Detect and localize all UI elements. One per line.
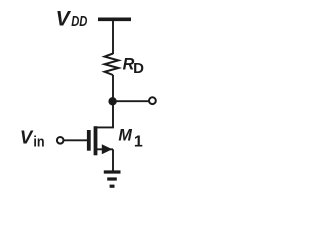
wire source to ground bbox=[112, 149, 114, 171]
svg-text:D: D bbox=[133, 60, 144, 77]
label VDD bbox=[56, 8, 88, 31]
svg-text:1: 1 bbox=[134, 133, 143, 150]
wire output node to output terminal bbox=[113, 100, 149, 102]
wire node to drain bbox=[97, 101, 114, 127]
gate plate of M1 bbox=[87, 130, 91, 151]
svg-text:V: V bbox=[20, 127, 34, 148]
output terminal (open circle) bbox=[149, 97, 156, 104]
svg-text:M: M bbox=[118, 127, 132, 145]
arrow on source of M1 bbox=[102, 144, 113, 154]
label RD bbox=[123, 56, 145, 77]
channel plate of M1 bbox=[94, 126, 98, 155]
ground bbox=[104, 172, 121, 186]
VDD supply symbol bbox=[98, 17, 131, 21]
svg-text:V: V bbox=[56, 8, 72, 31]
label Vin bbox=[20, 127, 45, 151]
transistor M1 bbox=[89, 126, 113, 155]
label M1 bbox=[118, 127, 142, 151]
resistor RD bbox=[105, 54, 119, 76]
svg-text:DD: DD bbox=[71, 14, 88, 30]
svg-text:in: in bbox=[33, 133, 44, 150]
wire VDD to resistor bbox=[112, 19, 114, 54]
wire resistor to output node bbox=[112, 75, 114, 101]
node output junction dot bbox=[108, 97, 116, 105]
input terminal (open circle) bbox=[57, 137, 64, 144]
wire gate input bbox=[64, 139, 89, 141]
source lead of M1 with arrow bbox=[97, 148, 114, 150]
